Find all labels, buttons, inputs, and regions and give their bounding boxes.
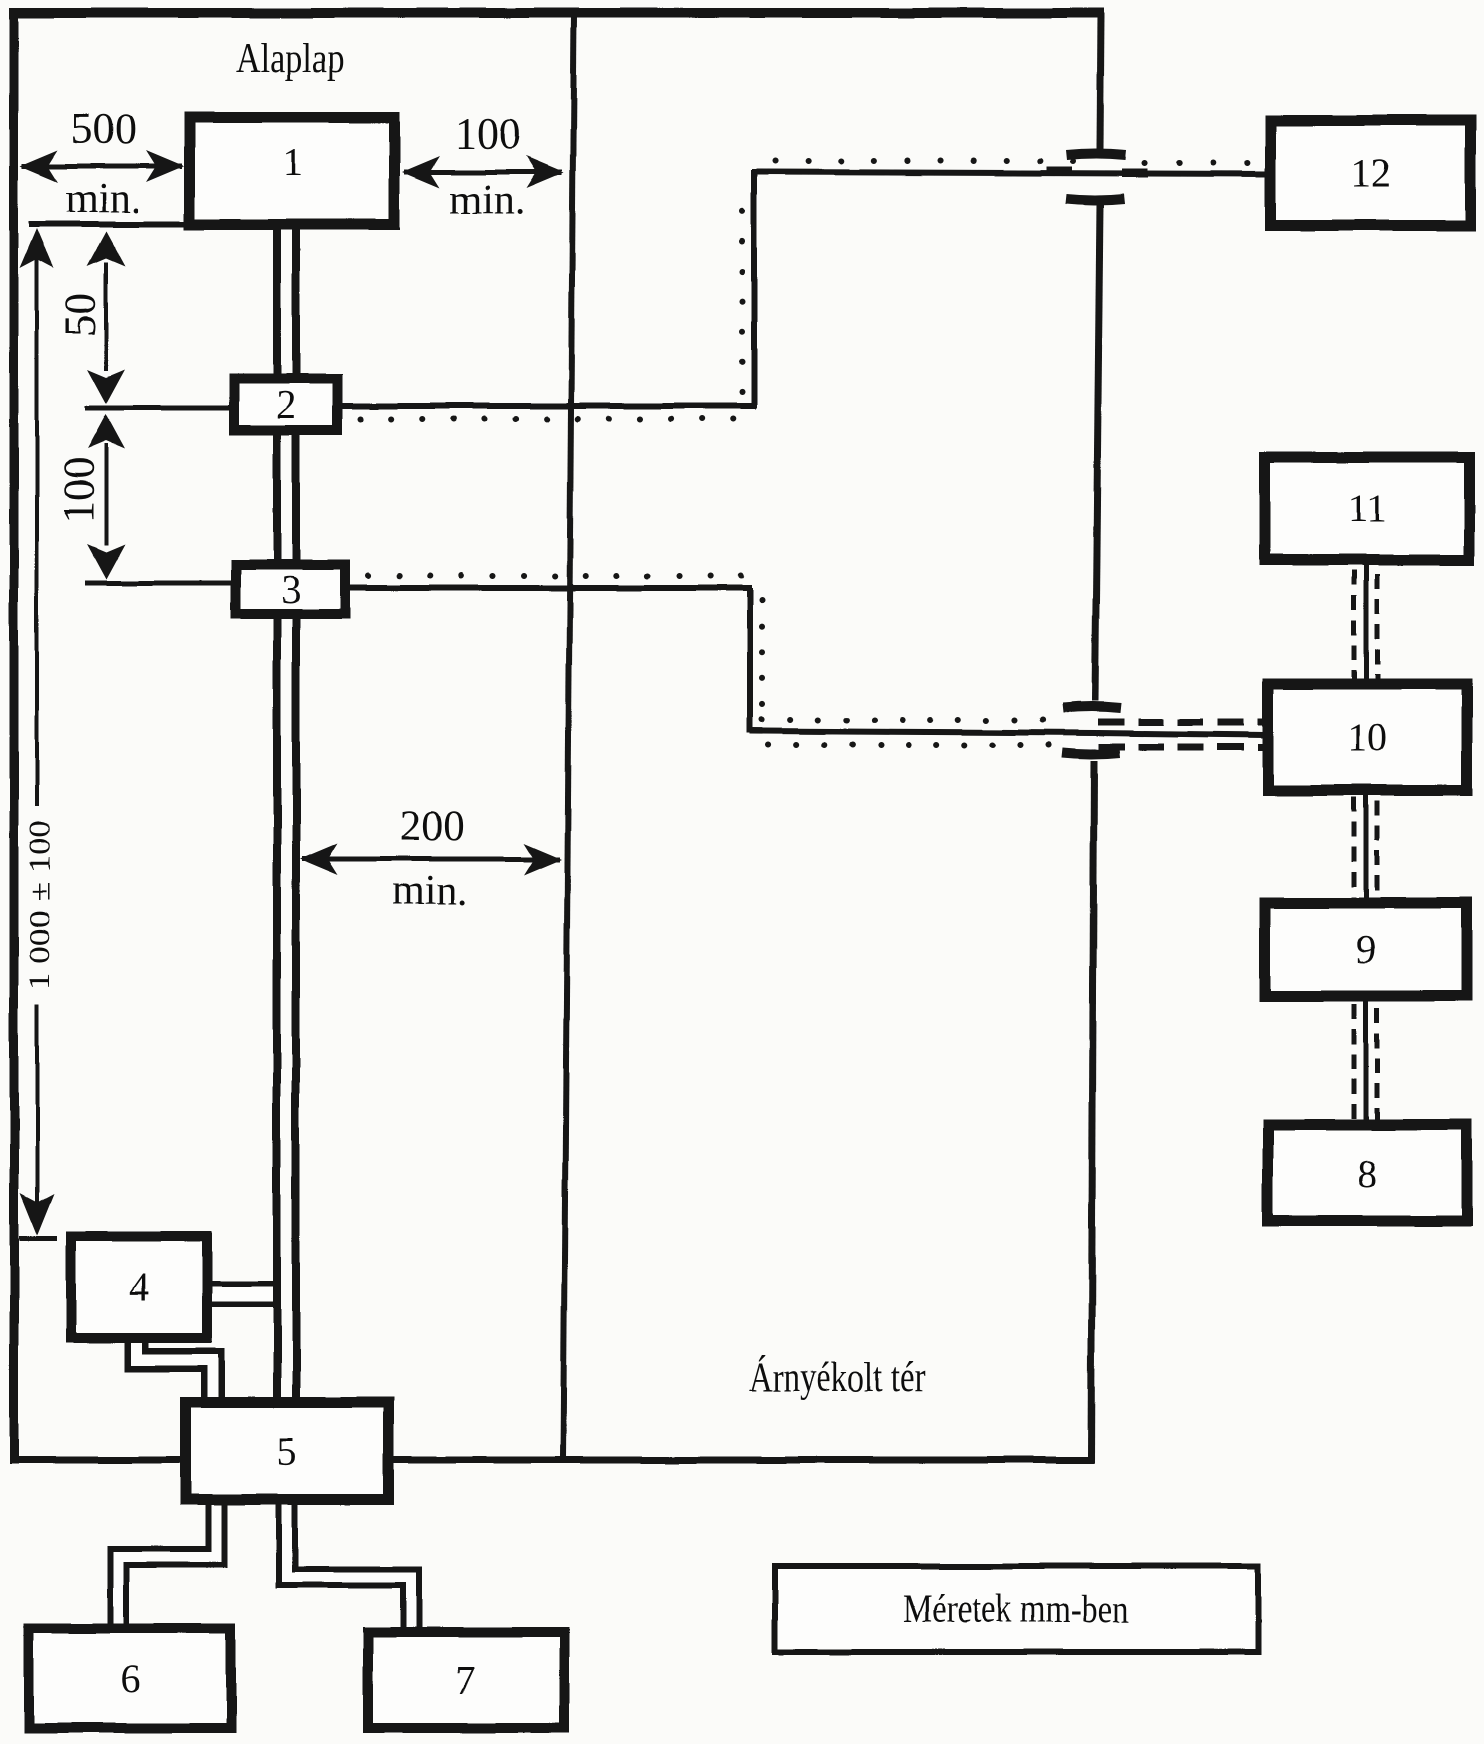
svg-text:11: 11 bbox=[1348, 486, 1387, 531]
box 2 bbox=[234, 379, 337, 430]
box 7 bbox=[368, 1632, 564, 1728]
svg-text:Alaplap: Alaplap bbox=[236, 36, 344, 82]
dimension: reference line at box3 level bbox=[85, 581, 234, 586]
svg-text:min.: min. bbox=[449, 177, 525, 223]
svg-text:4: 4 bbox=[129, 1265, 149, 1310]
wire: dotted signal line box3 to riser (horizontal) bbox=[350, 576, 752, 588]
svg-text:12: 12 bbox=[1350, 151, 1390, 196]
svg-text:1 000 ± 100: 1 000 ± 100 bbox=[23, 820, 56, 990]
svg-text:7: 7 bbox=[456, 1658, 476, 1703]
svg-text:100: 100 bbox=[54, 457, 103, 523]
wire: main vertical cable segment box3-box5 bbox=[277, 615, 296, 1400]
wire: main vertical cable segment box1-box2 bbox=[277, 228, 296, 378]
svg-text:1: 1 bbox=[282, 140, 302, 185]
legend box: Méretek mm-ben bbox=[775, 1566, 1258, 1652]
wire: box4 bottom stair-step channel to box5 bbox=[137, 1340, 213, 1400]
svg-text:Méretek mm-ben: Méretek mm-ben bbox=[903, 1586, 1129, 1631]
svg-text:6: 6 bbox=[120, 1656, 140, 1701]
svg-text:2: 2 bbox=[276, 382, 296, 427]
dimension: reference line under box1 bbox=[29, 221, 187, 227]
box 4 bbox=[71, 1236, 207, 1338]
box 8 bbox=[1268, 1125, 1467, 1221]
wire: box4 right connector channel to cable bbox=[210, 1281, 280, 1307]
feedthrough F2 on right wall (bottom) bbox=[1062, 707, 1121, 755]
wire: main vertical cable segment box2-box3 bbox=[277, 431, 296, 564]
dimension: 100 min. arrow bbox=[402, 109, 564, 223]
svg-text:9: 9 bbox=[1356, 927, 1376, 972]
svg-text:min.: min. bbox=[65, 176, 141, 222]
svg-text:Árnyékolt tér: Árnyékolt tér bbox=[749, 1354, 925, 1401]
wire: box5 bottom-left channel to box6 bbox=[118, 1503, 216, 1625]
box 5 bbox=[186, 1403, 389, 1500]
svg-text:3: 3 bbox=[281, 567, 301, 612]
wire: dashed link box11-box10 bbox=[1354, 565, 1377, 681]
box 6 bbox=[29, 1628, 231, 1728]
box 12 bbox=[1271, 121, 1471, 226]
wire: riser of box3 signal line (vertical down) bbox=[750, 588, 762, 733]
dimension: 50 vertical arrow bbox=[56, 231, 125, 404]
svg-text:100: 100 bbox=[455, 109, 521, 158]
dimension: 500 min. arrow bbox=[20, 104, 184, 222]
wire: dashed link box10-box9 bbox=[1354, 793, 1377, 900]
dimension: 200 min. arrow bbox=[300, 803, 562, 914]
dimension: 100 vertical arrow bbox=[54, 414, 125, 579]
divider: baseplate / shielded space boundary bbox=[563, 13, 574, 1460]
svg-text:min.: min. bbox=[392, 868, 468, 914]
svg-text:200: 200 bbox=[400, 803, 465, 850]
box 11 bbox=[1265, 457, 1469, 560]
box 3 bbox=[236, 565, 345, 614]
wire: dashed link box9-box8 bbox=[1354, 999, 1377, 1122]
svg-text:5: 5 bbox=[277, 1429, 297, 1474]
wire: riser of box2 signal line (vertical up) bbox=[742, 170, 754, 408]
box 1 bbox=[190, 118, 395, 225]
feedthrough F1 on right wall (top) bbox=[1066, 154, 1126, 201]
wire: box5 bottom-right channel to box7 bbox=[287, 1503, 411, 1629]
box 10 bbox=[1268, 684, 1467, 790]
wire: lower horizontal signal line to feedthrough2 bbox=[750, 720, 1096, 745]
enclosure: outer baseplate border bbox=[10, 8, 1104, 1464]
svg-text:8: 8 bbox=[1357, 1151, 1377, 1196]
dimension: reference line at box2 level bbox=[85, 406, 232, 411]
box 9 bbox=[1265, 903, 1467, 996]
svg-text:10: 10 bbox=[1347, 715, 1387, 760]
wire: shielded cable from feedthrough2 to box10 (solid with dashed shield) bbox=[1096, 722, 1266, 747]
wire: top horizontal signal line to box12 through feedthrough bbox=[752, 161, 1268, 174]
dimension: 1 000 ± 100 vertical arrow bbox=[19, 228, 57, 1238]
svg-text:50: 50 bbox=[56, 293, 105, 337]
svg-text:500: 500 bbox=[71, 104, 137, 153]
wire: dotted signal line box2 to riser (horizontal) bbox=[342, 406, 756, 419]
